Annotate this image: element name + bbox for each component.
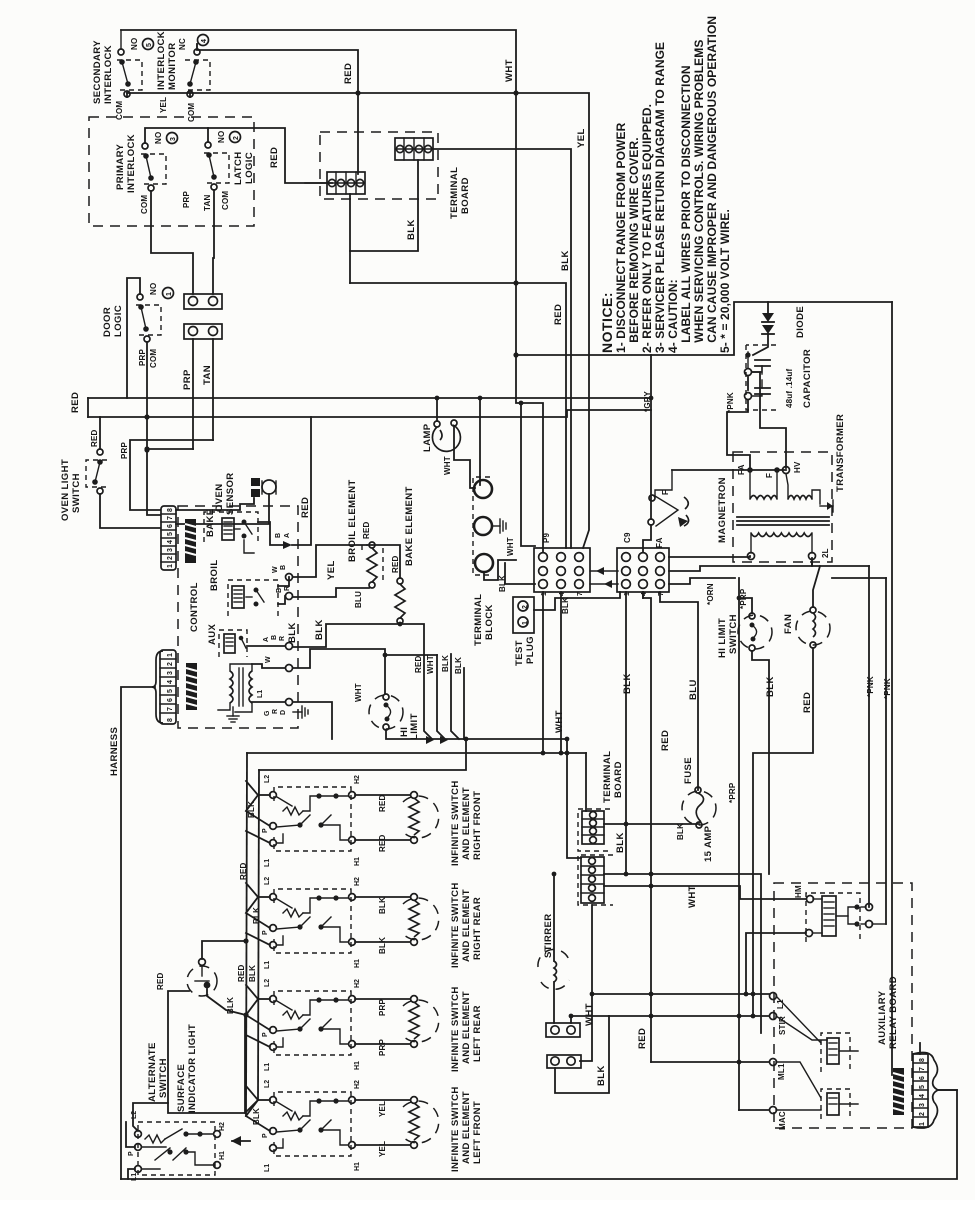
svg-text:4: 4 — [201, 39, 208, 43]
svg-text:4: 4 — [167, 540, 174, 544]
svg-text:3: 3 — [167, 548, 174, 552]
circled 1 — [163, 288, 174, 299]
svg-text:*PNK: *PNK — [866, 676, 875, 697]
left feed diagonals — [246, 781, 258, 811]
wire conn lower right y874 — [604, 874, 761, 1033]
svg-text:BLK: BLK — [622, 673, 633, 694]
harness bottom border wire — [121, 1090, 957, 1179]
fuse symbol — [682, 787, 716, 828]
infinite switch right front — [246, 775, 483, 867]
svg-text:H2: H2 — [354, 1080, 361, 1089]
wire lamp leads — [436, 398, 438, 421]
terminal block circles — [473, 477, 493, 575]
svg-text:TRANSFORMER: TRANSFORMER — [835, 414, 846, 492]
svg-text:YEL: YEL — [378, 1101, 387, 1117]
relay BAKE — [204, 508, 258, 553]
svg-text:BLU: BLU — [688, 679, 699, 700]
wire term block lower — [484, 560, 516, 580]
svg-text:RED: RED — [660, 730, 671, 751]
wire from switch2 com down — [213, 190, 214, 294]
svg-text:H1: H1 — [219, 1151, 226, 1160]
wire aux l1 — [592, 993, 769, 995]
svg-text:HI LIMIT: HI LIMIT — [717, 618, 728, 658]
wire bus y753 — [247, 752, 586, 754]
svg-text:BLK: BLK — [560, 250, 571, 271]
terminal board connector upper — [578, 809, 610, 851]
svg-text:WHT: WHT — [354, 683, 363, 702]
wire y149 blk — [432, 149, 571, 548]
svg-text:TERMINAL: TERMINAL — [602, 751, 613, 803]
svg-text:1: 1 — [167, 653, 174, 657]
svg-text:L2: L2 — [264, 1080, 271, 1088]
svg-text:B: B — [271, 635, 278, 640]
svg-text:7: 7 — [167, 516, 174, 520]
wires sensor to connector — [176, 498, 254, 510]
svg-text:BLK: BLK — [378, 937, 387, 954]
C9 connector — [617, 548, 669, 596]
svg-text:AUXILIARY: AUXILIARY — [877, 990, 888, 1045]
top border wire — [121, 30, 543, 552]
svg-text:L2: L2 — [264, 877, 271, 885]
svg-text:MONITOR: MONITOR — [167, 43, 178, 90]
svg-text:BLK: BLK — [378, 897, 387, 914]
brace outline aux connector — [913, 1052, 938, 1128]
wire from switch3 com down — [151, 191, 193, 294]
svg-text:RED: RED — [802, 692, 813, 713]
ground at terminal block — [492, 519, 506, 533]
svg-text:3- SERVICER PLEASE RETURN DIAG: 3- SERVICER PLEASE RETURN DIAGRAM TO RAN… — [653, 42, 667, 353]
infinite switch right rear — [239, 862, 483, 969]
wire red into bake — [292, 417, 311, 545]
svg-text:BAKE ELEMENT: BAKE ELEMENT — [404, 486, 415, 566]
wire p9 down mid — [560, 592, 562, 753]
svg-text:G: G — [264, 710, 271, 716]
wire wht from terminal board — [570, 1016, 572, 1023]
svg-text:INDICATOR LIGHT: INDICATOR LIGHT — [187, 1024, 198, 1113]
svg-text:L2: L2 — [264, 775, 271, 783]
svg-text:H1: H1 — [354, 959, 361, 968]
wire blk down feed 2 — [463, 668, 465, 739]
svg-text:RED: RED — [90, 429, 99, 447]
wire blk to p9 — [505, 563, 535, 584]
wire hi limit leads — [739, 598, 752, 613]
wire blk stirrer — [555, 1016, 609, 1093]
svg-text:COM: COM — [115, 101, 124, 120]
wire top inside box — [145, 128, 332, 183]
left feed bus vertical 2 — [258, 770, 259, 1100]
svg-text:INFINITE SWITCH: INFINITE SWITCH — [450, 882, 461, 968]
wire cap bottom to transformer — [727, 400, 750, 470]
svg-text:CAN CAUSE IMPROPER AND DANGERO: CAN CAUSE IMPROPER AND DANGEROUS OPERATI… — [705, 16, 719, 353]
svg-text:MAC: MAC — [778, 1111, 787, 1130]
switch interlock monitor (4) — [185, 44, 210, 97]
wire loop surface light — [168, 991, 245, 1113]
infinite switch left front — [246, 1080, 483, 1172]
svg-text:4: 4 — [641, 592, 648, 596]
svg-text:P: P — [262, 828, 269, 833]
hatched strip bottom — [186, 663, 197, 710]
svg-text:4: 4 — [559, 592, 566, 596]
relay STIR — [776, 996, 858, 1072]
capacitor box — [745, 345, 777, 410]
svg-text:LEFT FRONT: LEFT FRONT — [472, 1101, 483, 1164]
wire from C9 mid down — [643, 592, 651, 1062]
svg-text:ALTERNATE: ALTERNATE — [147, 1042, 158, 1102]
wire fan top — [813, 566, 820, 607]
svg-text:*PRP: *PRP — [728, 782, 737, 803]
wire red down element feed — [400, 624, 432, 739]
svg-text:*PNK: *PNK — [883, 678, 892, 699]
svg-text:BLK: BLK — [287, 622, 298, 643]
svg-text:L2: L2 — [131, 1111, 138, 1119]
svg-text:4: 4 — [167, 680, 174, 684]
relay BROIL — [209, 559, 278, 616]
primary winding 2 — [788, 496, 812, 500]
svg-text:BLK: BLK — [765, 676, 776, 697]
svg-text:PRP: PRP — [378, 1038, 387, 1056]
wire fan bottom red — [753, 648, 813, 1016]
infinite switch left rear — [237, 964, 483, 1072]
wire NC to terminal board red — [197, 44, 358, 174]
svg-text:BOARD: BOARD — [460, 177, 471, 214]
svg-text:AND ELEMENT: AND ELEMENT — [461, 991, 472, 1064]
wire bus y770 — [259, 739, 466, 770]
terminal board connector lower — [578, 855, 613, 905]
right tall border wire — [891, 302, 893, 1075]
svg-text:B: B — [276, 588, 283, 593]
svg-text:2: 2 — [233, 136, 240, 140]
svg-text:BLK: BLK — [454, 657, 463, 674]
wire gry down to magnetron — [650, 355, 652, 519]
wire magnetron filament — [672, 469, 786, 471]
svg-text:H1: H1 — [354, 1061, 361, 1070]
svg-text:INTERLOCK: INTERLOCK — [103, 45, 114, 104]
wire diagonal to left front L2 — [245, 1100, 258, 1113]
wires pnk from aux up — [868, 566, 870, 907]
svg-text:OVEN: OVEN — [214, 483, 225, 512]
stirrer symbol — [538, 949, 570, 989]
svg-text:B: B — [275, 533, 282, 538]
bake element — [395, 578, 405, 624]
svg-text:BLK: BLK — [247, 801, 256, 818]
wire prp down right — [738, 578, 740, 1110]
aux terminal ML1 — [770, 1059, 777, 1066]
svg-text:7: 7 — [658, 592, 665, 596]
arrow symbol — [231, 1136, 250, 1146]
wires C9 right to transformer — [669, 556, 750, 557]
dashed box terminal board — [320, 132, 438, 199]
svg-text:NOTICE:: NOTICE: — [599, 292, 615, 353]
svg-text:LATCH: LATCH — [233, 152, 244, 185]
svg-text:RED: RED — [637, 1028, 648, 1049]
svg-text:4- CAUTION:: 4- CAUTION: — [666, 279, 680, 353]
relay AUX — [207, 623, 247, 657]
wire orn from C9 down — [625, 592, 627, 874]
svg-text:NO: NO — [154, 132, 163, 144]
svg-text:PRP: PRP — [120, 441, 129, 459]
control transformer — [218, 664, 252, 712]
wires P9 to C9 — [590, 570, 618, 572]
svg-text:2: 2 — [522, 605, 529, 609]
wire wht to hi limit — [293, 649, 385, 693]
svg-text:5: 5 — [919, 1085, 926, 1089]
svg-text:H2: H2 — [354, 979, 361, 988]
svg-text:7: 7 — [577, 592, 584, 596]
dashed box control — [178, 506, 298, 728]
svg-text:HARNESS: HARNESS — [109, 727, 120, 776]
wire w terminal — [252, 664, 285, 668]
svg-text:WHT: WHT — [687, 885, 698, 908]
hi limit switch oven — [369, 694, 403, 730]
svg-text:P: P — [262, 930, 269, 935]
svg-text:STIRRER: STIRRER — [543, 914, 554, 959]
aux terminal MAC — [770, 1107, 777, 1114]
svg-text:P: P — [262, 1133, 269, 1138]
svg-text:PRP: PRP — [182, 369, 193, 390]
svg-text:5: 5 — [167, 689, 174, 693]
svg-text:RED: RED — [343, 63, 354, 84]
wire conn upper right — [604, 823, 699, 825]
svg-text:RED: RED — [362, 521, 371, 539]
svg-text:BLOCK: BLOCK — [484, 604, 495, 640]
svg-text:2L: 2L — [821, 548, 830, 558]
svg-text:WHEN SERVICING CONTROLS. WIRIN: WHEN SERVICING CONTROLS. WIRING PROBLEMS — [692, 40, 706, 353]
svg-text:LEFT REAR: LEFT REAR — [472, 1005, 483, 1062]
svg-text:YEL: YEL — [159, 97, 168, 113]
svg-text:AND ELEMENT: AND ELEMENT — [461, 1091, 472, 1164]
svg-text:SWITCH: SWITCH — [71, 473, 82, 513]
svg-text:COM: COM — [221, 191, 230, 210]
svg-text:6: 6 — [167, 524, 174, 528]
test plug box — [513, 597, 534, 633]
svg-text:RIGHT FRONT: RIGHT FRONT — [472, 791, 483, 860]
svg-text:B: B — [280, 565, 287, 570]
wire oven light bottom — [100, 494, 160, 528]
svg-text:LIMIT: LIMIT — [409, 713, 420, 740]
svg-text:W: W — [272, 566, 279, 573]
svg-text:SWITCH: SWITCH — [158, 1058, 169, 1098]
left feed diagonals — [246, 985, 258, 1015]
svg-text:RELAY BOARD: RELAY BOARD — [888, 976, 899, 1049]
svg-text:AUX: AUX — [207, 623, 218, 645]
svg-text:COM: COM — [149, 349, 158, 368]
svg-text:INFINITE SWITCH: INFINITE SWITCH — [450, 780, 461, 866]
broil element — [362, 542, 383, 588]
svg-text:2: 2 — [167, 556, 174, 560]
svg-text:BLK: BLK — [252, 907, 261, 924]
svg-text:NO: NO — [149, 283, 158, 295]
svg-text:L1: L1 — [257, 690, 264, 698]
svg-text:BLK: BLK — [406, 219, 417, 240]
svg-text:WHT: WHT — [443, 456, 452, 475]
connector block 4pin lower — [305, 172, 365, 194]
svg-text:BEFORE REMOVING WIRE COVER.: BEFORE REMOVING WIRE COVER. — [627, 137, 641, 353]
wire test plug — [534, 592, 620, 610]
svg-text:TEST: TEST — [514, 640, 525, 666]
circled 2 — [230, 132, 241, 143]
svg-text:6: 6 — [919, 1076, 926, 1080]
svg-text:5- * = 20,000 VOLT WIRE.: 5- * = 20,000 VOLT WIRE. — [718, 209, 732, 353]
circled 3 — [167, 133, 178, 144]
wire prp down — [192, 339, 194, 449]
svg-text:COM: COM — [140, 195, 149, 214]
lamp — [432, 420, 460, 451]
switch primary interlock (3) — [141, 143, 166, 191]
wire block1 down blk — [350, 160, 418, 283]
svg-text:15 AMP: 15 AMP — [703, 825, 714, 862]
svg-text:1: 1 — [541, 592, 548, 596]
wires broil to terminals — [278, 577, 289, 586]
harness left border wire — [109, 302, 957, 1179]
svg-text:PLUG: PLUG — [525, 636, 536, 664]
svg-text:WHT: WHT — [504, 59, 515, 82]
aux relay board dashed box — [774, 883, 912, 1128]
svg-text:WHT: WHT — [506, 537, 515, 556]
svg-text:WHT: WHT — [426, 655, 435, 674]
merge arrows — [426, 736, 434, 744]
wire stirrer bottom — [553, 982, 555, 1023]
svg-text:TAN: TAN — [202, 365, 213, 385]
svg-text:BLK: BLK — [314, 619, 325, 640]
left feed bus vertical 1 — [246, 753, 247, 1116]
connector pair upper — [184, 294, 222, 309]
svg-text:*ORN: *ORN — [706, 583, 715, 605]
svg-text:RED: RED — [70, 392, 81, 413]
svg-text:5: 5 — [146, 43, 153, 47]
svg-text:YEL: YEL — [378, 1141, 387, 1157]
wire blk bake bottom to aux — [293, 624, 400, 647]
svg-text:BLK: BLK — [252, 1108, 261, 1125]
wire blk down feed — [451, 654, 459, 739]
aux terminal STIR — [770, 1013, 777, 1020]
alternate switch box — [135, 1122, 221, 1175]
connector strip top (8 pin) — [161, 506, 176, 570]
svg-text:H1: H1 — [354, 857, 361, 866]
wire blu broil bottom to relay — [293, 588, 369, 597]
wire conn lower down — [580, 905, 592, 1061]
wire hi limit down — [386, 730, 567, 739]
wire oven light top — [99, 417, 101, 449]
wire blu down to fuse — [660, 592, 698, 790]
svg-text:P9: P9 — [542, 532, 551, 543]
svg-text:TERMINAL: TERMINAL — [449, 167, 460, 219]
svg-text:LOGIC: LOGIC — [113, 305, 124, 337]
P9 connector — [534, 548, 590, 596]
sensor symbol — [251, 478, 276, 497]
wire surface light top lead — [202, 941, 246, 959]
svg-text:TERMINAL: TERMINAL — [473, 594, 484, 646]
wire y93 yel — [127, 93, 589, 548]
wire aux connector out — [938, 1089, 957, 1091]
svg-text:NO: NO — [217, 131, 226, 143]
bus y398 — [88, 397, 651, 399]
svg-text:BLK: BLK — [248, 965, 257, 982]
switch door logic (1) — [136, 294, 161, 342]
svg-text:FAN: FAN — [783, 614, 794, 634]
svg-text:D: D — [280, 710, 287, 715]
wire aux stir — [609, 1015, 769, 1017]
svg-text:6: 6 — [167, 698, 174, 702]
svg-text:3: 3 — [170, 137, 177, 141]
svg-text:R: R — [279, 636, 286, 641]
svg-text:INTERLOCK: INTERLOCK — [126, 134, 137, 193]
svg-text:DIODE: DIODE — [795, 306, 806, 338]
svg-text:L2: L2 — [264, 979, 271, 987]
svg-text:RED: RED — [378, 794, 387, 812]
wire red from c9 — [642, 592, 644, 598]
svg-text:BOARD: BOARD — [613, 761, 624, 798]
svg-text:WHT: WHT — [554, 710, 565, 733]
svg-text:SWITCH: SWITCH — [728, 614, 739, 654]
svg-text:AND ELEMENT: AND ELEMENT — [461, 889, 472, 962]
wire door logic no up-left — [127, 278, 140, 398]
svg-text:4: 4 — [919, 1094, 926, 1098]
svg-text:NO: NO — [130, 38, 139, 50]
svg-text:DOOR: DOOR — [102, 307, 113, 337]
wire yel from broil terminal to elements — [293, 545, 400, 578]
svg-text:TAN: TAN — [203, 195, 212, 211]
connector strip bottom (8 pin) — [160, 650, 176, 724]
wire wht down feed — [437, 655, 445, 739]
svg-text:RED: RED — [553, 304, 564, 325]
svg-text:H2: H2 — [354, 775, 361, 784]
connector pair stirrer upper — [546, 1023, 580, 1037]
circled 4 — [198, 35, 209, 46]
svg-text:C9: C9 — [623, 532, 632, 543]
svg-text:1: 1 — [167, 564, 174, 568]
relay MAC — [776, 1062, 858, 1119]
svg-text:PRP: PRP — [138, 348, 147, 366]
svg-text:48uf .14uf: 48uf .14uf — [785, 369, 794, 408]
svg-text:BLU: BLU — [354, 591, 363, 608]
svg-text:F: F — [661, 490, 670, 495]
svg-text:WHT: WHT — [584, 1003, 595, 1026]
svg-text:SURFACE: SURFACE — [176, 1064, 187, 1112]
svg-text:YEL: YEL — [326, 560, 337, 580]
svg-text:P: P — [128, 1151, 135, 1156]
aux terminal L1 — [770, 993, 777, 1000]
wire door logic com down — [146, 342, 148, 450]
svg-text:1- DISCONNECT RANGE FROM POWER: 1- DISCONNECT RANGE FROM POWER — [614, 122, 628, 353]
ground at transformer core — [820, 500, 833, 512]
svg-text:L1: L1 — [264, 1164, 271, 1172]
svg-text:2: 2 — [167, 662, 174, 666]
ground symbol right — [293, 706, 308, 718]
svg-text:RED: RED — [414, 655, 423, 673]
svg-text:8: 8 — [919, 1058, 926, 1062]
wire y283 red — [350, 283, 566, 548]
wire bus y739 — [567, 739, 581, 858]
wire aux ml1 — [651, 1061, 769, 1063]
left feed diagonals — [246, 1086, 258, 1116]
connector block 4pin upper — [395, 138, 433, 160]
svg-text:A: A — [284, 533, 291, 538]
wire aux to terminal — [247, 645, 285, 647]
svg-text:RED: RED — [237, 964, 246, 982]
switch secondary interlock (5) — [117, 30, 142, 97]
left feed diagonals — [246, 883, 258, 913]
svg-text:FUSE: FUSE — [683, 757, 694, 784]
filament terminals — [747, 467, 753, 473]
svg-text:2: 2 — [919, 1112, 926, 1116]
svg-text:RED: RED — [391, 555, 400, 573]
svg-text:A: A — [263, 637, 270, 642]
svg-text:CAPACITOR: CAPACITOR — [802, 349, 813, 408]
svg-text:L1: L1 — [131, 1173, 138, 1181]
svg-text:1: 1 — [624, 592, 631, 596]
connector strip aux (8pin) — [913, 1054, 928, 1127]
svg-text:LAMP: LAMP — [422, 423, 433, 452]
